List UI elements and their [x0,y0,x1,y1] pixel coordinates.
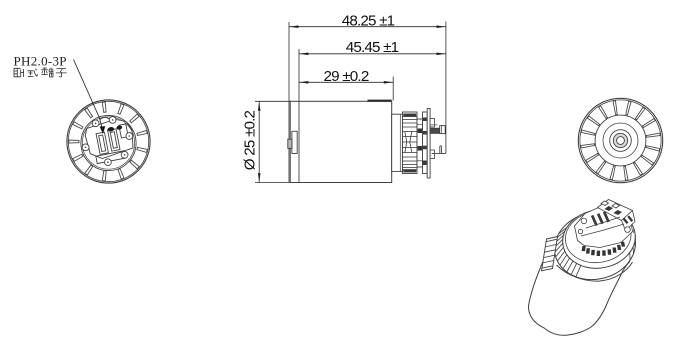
hanzi duan [41,68,53,77]
dimension dia 25 +/-0.2 [255,101,299,182]
left view lower bar [96,151,126,164]
leader line to connector [74,60,103,129]
left view slot 2 [108,129,120,151]
gearhead collar [417,119,423,167]
left view screw bosses [92,120,99,127]
iso cylinder body [528,258,629,335]
iso face tilted slots [591,211,610,226]
hanzi wo [14,68,24,77]
svg-text:45.45 ±1: 45.45 ±1 [346,39,399,56]
svg-text:Ø 25 ±0.2: Ø 25 ±0.2 [242,110,259,170]
iso cap inner ellipse [561,206,635,268]
dimension 45.45 +/-1 [299,49,446,183]
hanzi zi [56,69,67,77]
iso connector platform [575,207,633,248]
front bracket outline with notch [432,146,446,154]
motor can (side view) [290,101,392,182]
svg-text:PH2.0-3P: PH2.0-3P [14,54,67,69]
right end view outer rim circles [578,98,662,182]
iso connector upper box right face [622,211,636,231]
output shaft [430,124,437,126]
gearhead ribbed drum [403,112,418,174]
gearhead banded column [423,112,428,174]
left end view inner circles [81,115,136,170]
left view pin dots [107,126,115,132]
dimension 29 +/-0.2 [299,77,393,101]
right end view inner circles [595,115,646,166]
iso crown rib ticks [576,265,581,276]
iso crown band outer [548,205,642,287]
left view slot 3 [119,124,128,138]
can top-right thick mark [368,100,392,102]
front small steps [430,119,434,128]
label hanzi drawn strokes [14,68,67,77]
iso lower rim dark slots [582,242,626,256]
svg-text:48.25 ±1: 48.25 ±1 [342,12,395,29]
iso side hatch patch [542,237,558,271]
iso connector tabs [601,201,609,206]
iso connector upper box top face [598,200,633,221]
left end view vent fins [102,101,106,113]
iso screw circles [581,218,587,224]
left end view outer rim circles [67,100,150,183]
left view connector housing [83,117,137,165]
iso connector box slots dark [605,206,634,224]
dimension 48.25 +/-1 [289,22,446,183]
iso crown band lower edge [557,262,633,281]
rear connector bump [292,131,297,153]
gearhead neck ring [392,114,403,171]
iso face slot outlines [581,217,624,236]
iso connector assembly [575,200,636,248]
can seam line [298,101,300,182]
hanzi shi [27,69,37,77]
front flange [427,109,430,179]
right end view fins [613,100,617,115]
left view top tab [100,117,110,119]
svg-text:29 ±0.2: 29 ±0.2 [324,68,369,85]
iso cap face ellipse [558,204,640,274]
left view slot 1 [96,132,108,154]
